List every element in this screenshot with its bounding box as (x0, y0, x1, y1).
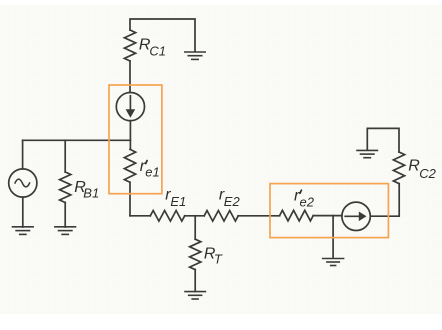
svg-text:C2: C2 (419, 166, 436, 181)
svg-text:e2: e2 (300, 195, 315, 210)
svg-text:E1: E1 (170, 194, 186, 209)
svg-text:E2: E2 (224, 194, 241, 209)
svg-text:T: T (214, 251, 223, 266)
svg-text:C1: C1 (149, 44, 166, 59)
svg-text:B1: B1 (83, 185, 99, 200)
svg-text:e1: e1 (145, 164, 159, 179)
